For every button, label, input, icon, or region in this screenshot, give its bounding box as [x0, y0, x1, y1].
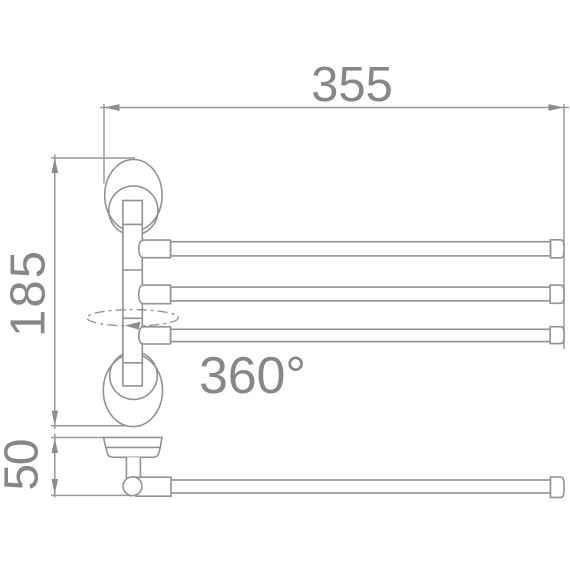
bottom arm tube: [171, 480, 551, 493]
arm 2 tube: [171, 287, 551, 301]
post division line 2: [123, 269, 142, 271]
bottom wall mount outer oval: [103, 354, 162, 426]
extension line bottom of 50: [51, 494, 171, 496]
extension line bottom of 185: [51, 425, 133, 427]
arm 1 tube: [171, 242, 551, 256]
bottom arm pivot circle: [123, 477, 142, 496]
post division line 1: [123, 223, 142, 225]
svg-text:185: 185: [2, 251, 56, 337]
bottom arm end cap: [551, 477, 565, 497]
dimension 50 line: [54, 434, 56, 498]
svg-text:50: 50: [0, 439, 49, 491]
dimension 185 line: [54, 155, 56, 430]
dimension 355 line: [100, 107, 569, 109]
arm 3 end cap: [550, 327, 564, 344]
svg-text:360°: 360°: [199, 347, 306, 405]
bottom arm hub: [136, 477, 171, 496]
rotation indicator dashed ellipse: [87, 310, 179, 326]
svg-text:355: 355: [311, 58, 393, 112]
arm 3 tube: [171, 329, 551, 341]
post division line 3: [123, 317, 142, 319]
dimension 185 bottom arrow: [52, 411, 59, 426]
bottom bracket stem: [126, 457, 140, 477]
top wall mount outer oval: [105, 160, 162, 232]
swivel post: [123, 201, 142, 386]
extension line left of 355: [103, 104, 105, 184]
arm 1 end cap: [551, 240, 565, 258]
arm 2 hub: [139, 285, 171, 304]
bottom bracket saucer rim line: [105, 446, 160, 448]
dimension 50 top arrow: [52, 438, 59, 453]
rotation arrow: [125, 322, 141, 330]
post division line 4: [123, 362, 142, 364]
bottom bracket saucer: [104, 438, 162, 458]
extension line top of 185: [51, 157, 135, 159]
dimension 50 bottom arrow: [52, 479, 59, 494]
top wall mount inner circle: [109, 186, 158, 235]
arm 1 hub: [139, 240, 171, 258]
dimension 355 right arrow: [549, 104, 565, 111]
dimension 185 top arrow: [52, 158, 59, 173]
bottom wall mount inner circle: [110, 352, 158, 400]
extension line right of 355: [563, 104, 565, 349]
arm 2 end cap: [550, 285, 564, 303]
dimension 355 left arrow: [104, 104, 120, 111]
extension line top of 50: [51, 437, 162, 439]
arm 3 hub: [139, 327, 171, 344]
